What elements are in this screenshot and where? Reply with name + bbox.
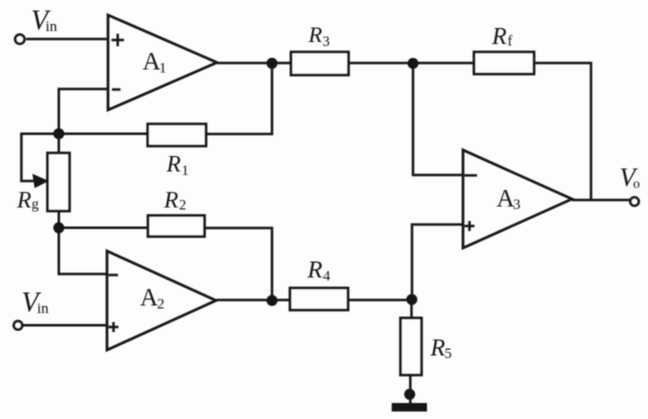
svg-text:in: in: [37, 301, 49, 317]
svg-text:R: R: [491, 24, 507, 50]
svg-text:2: 2: [157, 297, 165, 313]
svg-text:3: 3: [513, 197, 521, 213]
svg-text:3: 3: [323, 34, 330, 50]
svg-text:5: 5: [445, 346, 452, 362]
svg-text:R: R: [166, 152, 181, 178]
svg-text:2: 2: [179, 198, 186, 214]
svg-text:1: 1: [159, 61, 167, 77]
svg-text:A: A: [143, 49, 161, 76]
svg-text:4: 4: [323, 269, 331, 285]
svg-text:A: A: [497, 186, 515, 213]
svg-text:f: f: [508, 34, 513, 50]
svg-text:R: R: [163, 188, 178, 214]
svg-text:R: R: [430, 336, 446, 362]
svg-text:R: R: [307, 257, 323, 284]
svg-text:R: R: [308, 22, 323, 47]
svg-text:o: o: [633, 177, 640, 192]
svg-text:1: 1: [182, 163, 189, 179]
svg-text:R: R: [16, 188, 31, 214]
svg-text:in: in: [46, 19, 58, 35]
svg-text:g: g: [32, 197, 39, 213]
svg-text:A: A: [140, 285, 158, 312]
